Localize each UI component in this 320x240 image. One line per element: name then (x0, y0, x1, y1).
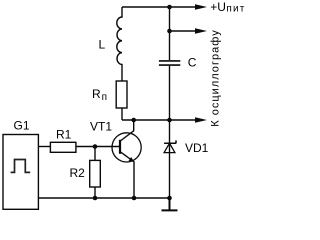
svg-text:пит: пит (226, 4, 245, 15)
wire oscilloscope upper lead (170, 30, 197, 32)
wire base junction down to R2 (94, 147, 96, 161)
wire collector rail (122, 119, 196, 121)
svg-text:G1: G1 (14, 119, 30, 133)
node R2 ground junction (93, 196, 98, 201)
resistor Rп (116, 81, 127, 108)
wire Rп to collector rail (121, 108, 123, 120)
svg-text:К осциллографу: К осциллографу (209, 30, 221, 127)
svg-text:R1: R1 (56, 128, 72, 142)
capacitor C (159, 61, 180, 65)
svg-text:C: C (188, 56, 197, 70)
svg-text:VT1: VT1 (90, 119, 112, 133)
svg-text:+U: +U (210, 0, 226, 14)
node base junction (93, 144, 98, 149)
svg-text:VD1: VD1 (185, 141, 209, 155)
node collector junction (131, 118, 136, 123)
pulse symbol (11, 160, 31, 173)
diode VD1 (zener) (164, 140, 176, 152)
generator G1 box (3, 135, 38, 210)
svg-text:R: R (92, 87, 101, 101)
wire G1 upper output (38, 146, 50, 148)
svg-text:R2: R2 (70, 166, 86, 180)
node emitter ground junction (132, 196, 137, 201)
node oscilloscope tap upper (167, 29, 172, 34)
resistor R2 (90, 160, 101, 187)
svg-text:п: п (102, 92, 107, 103)
transistor VT1 (112, 120, 141, 198)
node top rail junction (167, 5, 172, 10)
wire main vertical lower segment (169, 66, 171, 198)
arrow head oscilloscope lower (195, 117, 207, 122)
arrow head +Upit (195, 4, 207, 9)
arrow head oscilloscope upper (195, 28, 207, 33)
wire top supply rail (122, 6, 196, 8)
svg-text:L: L (99, 37, 106, 51)
resistor R1 (50, 142, 76, 152)
wire R1 to base (76, 146, 120, 148)
ground symbol (162, 198, 178, 210)
wire R2 to ground rail (94, 187, 96, 198)
wire main vertical upper segment (169, 7, 171, 60)
inductor L (117, 7, 122, 81)
wire ground rail (38, 197, 169, 199)
node oscilloscope tap lower (167, 118, 172, 123)
node ground junction (167, 196, 172, 201)
